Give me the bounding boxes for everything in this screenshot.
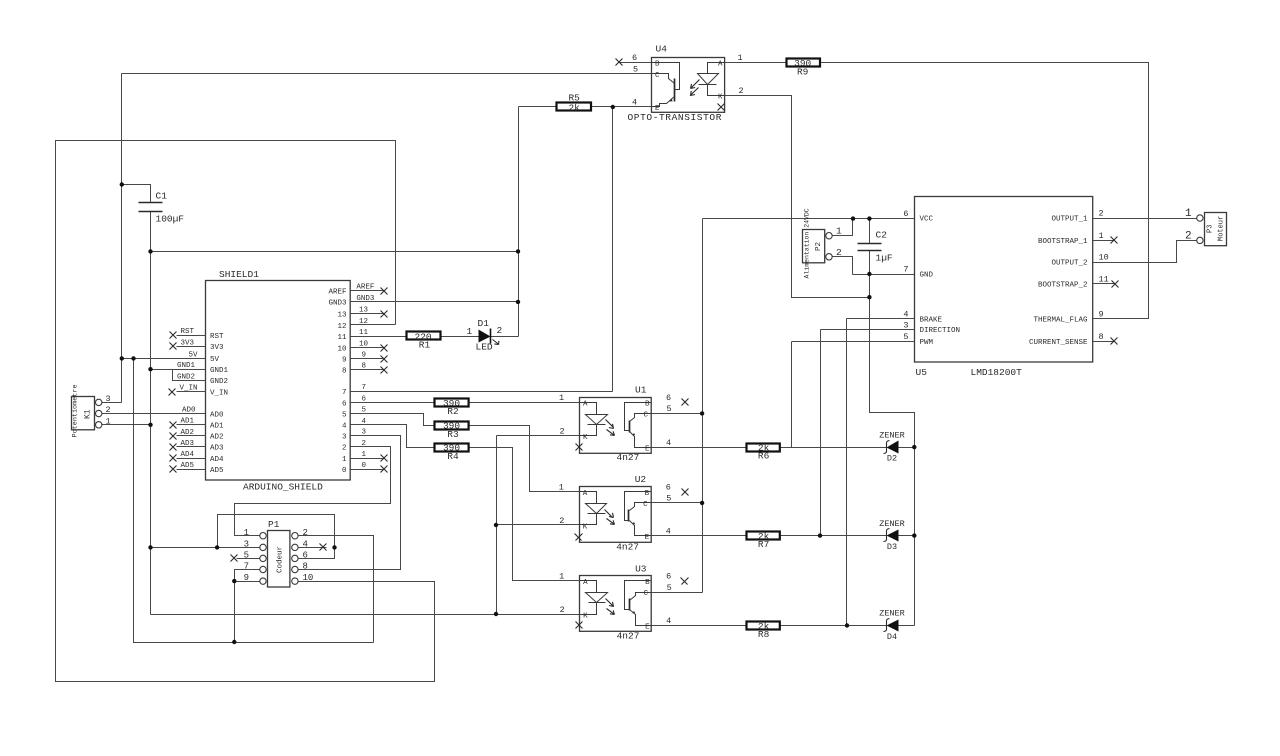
wire shield pin4 to R4 [351, 425, 435, 448]
node U2 pin2 junction [494, 523, 498, 527]
shield left pin 3V3 [177, 346, 206, 348]
svg-text:U2: U2 [635, 474, 647, 485]
capacitor C1 [139, 191, 185, 225]
shield SHIELD1 box [206, 281, 351, 481]
svg-text:7: 7 [903, 265, 908, 275]
resistor R9 390 [787, 58, 821, 78]
svg-text:3: 3 [903, 320, 908, 330]
shield right pin 8 [351, 369, 385, 371]
wire U5 PWM [792, 341, 915, 343]
wire P2 pin2 lead [833, 257, 853, 275]
wire PWM down to R6 row [791, 342, 793, 448]
wire opto cathode vertical [496, 436, 498, 615]
svg-text:B: B [645, 490, 650, 498]
wire D1 cathode to GND column [491, 336, 519, 338]
svg-text:AD3: AD3 [181, 440, 195, 448]
wire GND vertical at x518 [518, 107, 520, 337]
svg-text:AREF: AREF [356, 284, 374, 292]
svg-text:SHIELD1: SHIELD1 [219, 269, 259, 280]
svg-text:AD1: AD1 [210, 423, 224, 431]
svg-text:U3: U3 [635, 563, 647, 574]
svg-text:4: 4 [632, 98, 637, 108]
svg-text:8: 8 [362, 363, 367, 371]
svg-text:ARDUINO_SHIELD: ARDUINO_SHIELD [243, 482, 323, 493]
svg-text:R6: R6 [758, 451, 770, 462]
shield right pin 10 [351, 347, 385, 349]
wire shield pin5 to R3 [351, 414, 435, 426]
svg-text:13: 13 [359, 307, 369, 315]
svg-text:2: 2 [560, 605, 565, 615]
svg-text:1: 1 [362, 451, 367, 459]
svg-text:5: 5 [342, 411, 347, 419]
node U3 pin2 junction [494, 612, 498, 616]
svg-text:R7: R7 [758, 539, 769, 550]
svg-text:C: C [643, 501, 648, 509]
resistor R3 390 [435, 421, 469, 440]
diode D4 zener [879, 609, 905, 642]
svg-text:ZENER: ZENER [879, 430, 905, 440]
svg-text:4n27: 4n27 [616, 542, 639, 553]
svg-text:K1: K1 [84, 409, 93, 419]
wire 5V top horizontal to U4 pin C [122, 73, 652, 75]
resistor R4 390 [435, 443, 469, 462]
svg-text:1: 1 [836, 226, 842, 237]
wire R6 to D2 [781, 447, 887, 449]
svg-text:7: 7 [342, 389, 347, 397]
svg-text:1: 1 [559, 482, 564, 492]
node P1 pin9 junction [232, 579, 236, 583]
wire R8 to D4 [781, 625, 887, 627]
svg-text:ZENER: ZENER [879, 519, 905, 529]
svg-text:U4: U4 [656, 44, 668, 55]
svg-text:THERMAL_FLAG: THERMAL_FLAG [1033, 317, 1088, 325]
svg-text:6: 6 [666, 393, 671, 403]
node D2 column junction [912, 445, 916, 449]
wire GND to zener column [870, 275, 915, 626]
svg-text:K: K [583, 612, 588, 620]
shield left pin AD5 [177, 469, 206, 471]
svg-text:K: K [583, 523, 588, 531]
wire U5 OUTPUT_1 to P3 pin1 [1093, 218, 1197, 220]
svg-text:BOOTSTRAP_1: BOOTSTRAP_1 [1038, 238, 1088, 246]
shield right pin AREF [351, 290, 385, 292]
svg-text:D4: D4 [887, 632, 897, 642]
shield right pin 9 [351, 358, 385, 360]
svg-text:R1: R1 [419, 340, 431, 351]
node D3 column junction [912, 533, 916, 537]
svg-text:3: 3 [342, 433, 347, 441]
svg-text:2: 2 [739, 86, 744, 96]
diode D3 zener [879, 519, 905, 552]
wire GND row to U5 pin7 [853, 274, 915, 276]
svg-text:D3: D3 [887, 542, 897, 552]
svg-text:10: 10 [303, 573, 314, 583]
svg-text:2: 2 [836, 247, 842, 258]
svg-text:R9: R9 [797, 66, 809, 77]
wire R9 to thermal flag [820, 63, 1149, 319]
svg-text:10: 10 [1099, 253, 1109, 263]
svg-text:9: 9 [244, 573, 249, 583]
svg-text:4n27: 4n27 [617, 452, 640, 463]
svg-text:13: 13 [337, 311, 347, 319]
svg-text:4: 4 [666, 526, 671, 536]
wire GND left vertical [150, 252, 152, 615]
resistor R2 390 [435, 398, 469, 417]
svg-text:11: 11 [359, 329, 369, 337]
svg-text:11: 11 [1099, 275, 1109, 285]
wire R3 to U2 pin1 [469, 426, 580, 492]
svg-text:1: 1 [244, 528, 249, 538]
svg-text:6: 6 [342, 400, 347, 408]
node U4 cathode junction [867, 295, 871, 299]
diode D1 LED [467, 318, 503, 353]
wire U5 BRAKE [847, 318, 915, 320]
svg-text:E: E [645, 445, 650, 453]
connector K1 Potentiometre [72, 384, 111, 437]
svg-text:1: 1 [106, 416, 111, 426]
wire U5 BOOTSTRAP_1 stub [1093, 240, 1115, 242]
wire D3 to zener column [899, 535, 915, 537]
svg-text:5: 5 [667, 404, 672, 414]
wire shield pin11 row to R1 [351, 336, 407, 338]
connector P2 Alimentation 24VDC [803, 208, 843, 278]
node DIRECTION R7 junction [818, 533, 822, 537]
shield left pin RST [177, 335, 206, 337]
svg-text:5: 5 [903, 332, 908, 342]
node U1 pin5 junction [700, 411, 704, 415]
node GND1 junction [148, 367, 152, 371]
svg-text:R8: R8 [758, 629, 770, 640]
svg-text:6: 6 [903, 209, 908, 219]
svg-text:R3: R3 [447, 429, 459, 440]
svg-text:E: E [645, 624, 650, 632]
wire U2 pin4 to R7 [652, 535, 747, 537]
wire VCC row to U5 [703, 218, 915, 220]
svg-text:OUTPUT_2: OUTPUT_2 [1051, 260, 1087, 268]
connector P1 Codeur [231, 519, 327, 587]
wire U1 pin5 stub [652, 413, 703, 415]
svg-text:3V3: 3V3 [210, 344, 224, 352]
svg-text:P3: P3 [1207, 225, 1215, 233]
wire K1 pin2 to AD0 [102, 413, 206, 415]
svg-text:LMD18200T: LMD18200T [971, 367, 1023, 378]
svg-text:4: 4 [362, 418, 367, 426]
svg-text:LED: LED [476, 342, 493, 353]
svg-text:9: 9 [1099, 310, 1104, 320]
svg-text:GND1: GND1 [177, 362, 196, 370]
wire R2 to U1 pin1 [469, 402, 580, 404]
svg-text:Moteur: Moteur [1218, 216, 1226, 241]
svg-text:2: 2 [559, 516, 564, 526]
svg-text:BRAKE: BRAKE [920, 317, 943, 325]
svg-text:C: C [644, 590, 649, 598]
wire U4 pin B stub [619, 62, 652, 64]
wire P2 pin1 lead [833, 219, 853, 236]
svg-text:E: E [645, 534, 650, 542]
shield left pin AD3 [177, 446, 206, 448]
wire D4 to zener column [899, 625, 915, 627]
motor driver U5 LMD18200T [903, 197, 1118, 379]
resistor R1 220 [407, 331, 441, 350]
wire GND over-P1 branch to pin6 [218, 515, 335, 559]
shield left pin V_IN [177, 391, 206, 393]
svg-text:GND2: GND2 [177, 373, 195, 381]
wire GND C1 to D1 column [151, 251, 519, 253]
svg-text:AD0: AD0 [210, 411, 224, 419]
svg-text:1: 1 [559, 393, 564, 403]
svg-text:OPTO-TRANSISTOR: OPTO-TRANSISTOR [628, 112, 723, 123]
wire U1 pin4 to R6 [652, 447, 747, 449]
svg-text:AD2: AD2 [181, 429, 195, 437]
wire opto collector vertical [702, 219, 704, 593]
svg-text:8: 8 [1099, 332, 1104, 342]
svg-text:1: 1 [738, 53, 743, 63]
wire shield pin7 vertical [612, 107, 614, 392]
svg-text:B: B [645, 579, 650, 587]
wire C2 bottom lead [869, 251, 871, 275]
node P1 pin3 junction a [148, 545, 152, 549]
shield right pin 13 [351, 313, 385, 315]
wire U4 pin K to GND [725, 96, 870, 298]
wire GND bottom row to U3 pin K [151, 614, 580, 616]
opto-isolator U2 4n27 [559, 474, 689, 552]
svg-text:7: 7 [244, 562, 249, 572]
svg-text:V_IN: V_IN [180, 384, 198, 392]
svg-text:D2: D2 [887, 454, 897, 464]
node P1 pin5 no-connect stub [237, 558, 260, 560]
svg-text:VCC: VCC [920, 216, 934, 224]
wire pin12 big loop to P1 pin10 [56, 141, 435, 682]
node K1 pin1 junction [148, 423, 152, 427]
svg-text:R5: R5 [568, 93, 580, 104]
node P2 pin1 junction [851, 216, 855, 220]
svg-text:2: 2 [362, 440, 367, 448]
svg-text:V_IN: V_IN [210, 389, 228, 397]
svg-text:12: 12 [359, 318, 368, 326]
svg-text:Potentiometre: Potentiometre [72, 384, 80, 437]
wire P1 pin2 branch [298, 536, 374, 643]
svg-text:4: 4 [342, 423, 347, 431]
svg-text:8: 8 [342, 368, 347, 376]
node 5V pin junction b [131, 356, 135, 360]
svg-text:ZENER: ZENER [879, 609, 905, 619]
svg-text:A: A [583, 490, 588, 498]
svg-text:4n27: 4n27 [617, 631, 640, 642]
svg-text:DIRECTION: DIRECTION [920, 327, 961, 335]
svg-text:OUTPUT_1: OUTPUT_1 [1051, 216, 1088, 224]
svg-text:RST: RST [210, 333, 224, 341]
resistor R5 2k [557, 93, 592, 114]
wire P1 pin3 row [151, 547, 260, 549]
diode D2 zener [879, 430, 905, 463]
svg-text:PWM: PWM [920, 339, 934, 347]
wire GND3 row [351, 301, 519, 303]
svg-text:9: 9 [342, 356, 347, 364]
svg-text:3: 3 [362, 429, 367, 437]
svg-text:K: K [583, 434, 588, 442]
svg-text:0: 0 [342, 467, 347, 475]
svg-text:A: A [583, 579, 588, 587]
wire U5 DIRECTION [821, 329, 915, 331]
shield left pin AD1 [177, 424, 206, 426]
svg-text:1: 1 [467, 326, 473, 337]
svg-text:U1: U1 [635, 385, 647, 396]
wire shield pin3 to P1 pin8 [298, 436, 401, 570]
node C1 bottom junction [148, 249, 152, 253]
svg-text:C: C [655, 72, 660, 80]
wire R7 to D3 [781, 535, 887, 537]
svg-text:CURRENT_SENSE: CURRENT_SENSE [1029, 339, 1088, 347]
wire P1 pin7 pin9 branch [235, 570, 260, 643]
svg-text:5: 5 [667, 583, 672, 593]
svg-text:Alimentation 24VDC: Alimentation 24VDC [804, 208, 811, 278]
svg-text:AD1: AD1 [181, 418, 195, 426]
svg-text:3: 3 [106, 394, 111, 404]
wire U2 pin5 stub [652, 502, 703, 504]
svg-text:3V3: 3V3 [181, 339, 195, 347]
svg-text:U5: U5 [916, 367, 928, 378]
svg-text:1: 1 [1099, 231, 1104, 241]
svg-text:11: 11 [337, 334, 347, 342]
svg-text:4: 4 [666, 438, 671, 448]
svg-text:1µF: 1µF [876, 253, 893, 264]
svg-text:2: 2 [1099, 209, 1104, 219]
svg-text:AREF: AREF [328, 289, 346, 297]
svg-text:5: 5 [666, 494, 671, 504]
wire C1 top lead [122, 185, 151, 203]
svg-text:2k: 2k [568, 102, 580, 113]
svg-text:5V: 5V [189, 351, 199, 359]
svg-text:P1: P1 [268, 519, 280, 530]
svg-text:4: 4 [666, 616, 671, 626]
wire GND2 jog [173, 370, 206, 381]
svg-text:2: 2 [560, 427, 565, 437]
connector P3 Moteur [1185, 208, 1227, 246]
wire K1 pin1 stub to GND [102, 424, 151, 426]
shield left pin AD4 [177, 458, 206, 460]
wire R5 left lead [519, 106, 557, 108]
wire shield pin6 to R2 [351, 402, 435, 404]
svg-text:GND3: GND3 [356, 295, 375, 303]
node C2 top junction [867, 216, 871, 220]
svg-text:1: 1 [342, 456, 347, 464]
svg-text:B: B [645, 401, 650, 409]
wire shield pin7 row [351, 391, 613, 393]
svg-text:10: 10 [337, 345, 347, 353]
svg-text:AD2: AD2 [210, 434, 224, 442]
resistor R7 2k [747, 531, 780, 550]
node GND row end junction [516, 249, 520, 253]
wire 5V down branch [134, 359, 374, 643]
svg-text:6: 6 [666, 482, 671, 492]
svg-text:A: A [718, 61, 723, 69]
shield right pin 1 [351, 458, 385, 460]
svg-text:8: 8 [303, 562, 308, 572]
wire R4 to U3 pin1 [469, 448, 580, 581]
resistor R8 2k [747, 621, 780, 640]
wire U1 pin2 stub [497, 435, 580, 437]
wire BRAKE down to R8 row [846, 319, 848, 626]
svg-text:R2: R2 [447, 406, 459, 417]
svg-text:A: A [583, 401, 588, 409]
svg-text:AD3: AD3 [210, 445, 224, 453]
svg-text:AD0: AD0 [182, 406, 196, 414]
wire DIRECTION down to R7 row [820, 330, 822, 536]
capacitor C2 [858, 230, 893, 264]
node 5V bottom junction [232, 640, 236, 644]
svg-text:Codeur: Codeur [277, 546, 285, 573]
wire C1 bottom lead [150, 212, 152, 252]
svg-text:12: 12 [337, 323, 346, 331]
svg-text:5: 5 [362, 407, 367, 415]
svg-text:R4: R4 [447, 451, 459, 462]
wire U2 pin2 stub [497, 524, 580, 526]
svg-text:1: 1 [1185, 208, 1192, 220]
svg-text:GND: GND [920, 272, 934, 280]
svg-text:C: C [643, 412, 648, 420]
svg-text:2: 2 [342, 445, 347, 453]
node 5V pin junction a [120, 356, 124, 360]
resistor R6 2k [747, 443, 780, 462]
svg-text:AD5: AD5 [181, 462, 195, 470]
svg-text:6: 6 [303, 551, 308, 561]
svg-text:GND2: GND2 [210, 378, 228, 386]
svg-text:10: 10 [359, 340, 369, 348]
svg-text:RST: RST [181, 328, 195, 336]
wire C2 top lead [869, 219, 871, 244]
shield left pin AD2 [177, 435, 206, 437]
svg-text:AD4: AD4 [181, 451, 195, 459]
svg-text:1: 1 [559, 572, 564, 582]
svg-text:C2: C2 [876, 230, 888, 241]
svg-text:P2: P2 [815, 242, 823, 251]
shield right pin 0 [351, 469, 385, 471]
wire P1 pin9 stub [235, 581, 260, 583]
opto-isolator U3 4n27 [559, 563, 688, 641]
svg-text:6: 6 [362, 395, 367, 403]
svg-text:BOOTSTRAP_2: BOOTSTRAP_2 [1038, 282, 1088, 290]
wire 5V left vertical [121, 74, 123, 403]
opto-transistor U4 [616, 44, 744, 124]
svg-text:4: 4 [903, 310, 908, 320]
svg-text:GND1: GND1 [210, 367, 229, 375]
svg-text:0: 0 [362, 462, 367, 470]
svg-text:4: 4 [303, 540, 308, 550]
svg-text:9: 9 [362, 352, 367, 360]
wire GND1 row [151, 369, 206, 371]
svg-text:K: K [718, 94, 723, 102]
svg-text:5V: 5V [210, 356, 220, 364]
svg-text:2: 2 [106, 405, 111, 415]
opto-isolator U1 4n27 [559, 385, 689, 463]
node C1 top junction [120, 182, 124, 186]
svg-text:6: 6 [666, 572, 671, 582]
wire R5 right lead to U4 pin E [592, 106, 652, 108]
svg-text:6: 6 [632, 53, 637, 63]
svg-text:7: 7 [362, 384, 367, 392]
wire U3 pin4 to R8 [652, 625, 747, 627]
svg-text:D1: D1 [478, 318, 490, 329]
svg-text:2: 2 [497, 325, 503, 336]
wire U5 OUTPUT_2 to P3 pin2 [1093, 241, 1197, 263]
node P1 pin3 junction b [215, 545, 219, 549]
node C2 bottom junction [867, 272, 871, 276]
wire U4 pin A to R9 [725, 62, 787, 64]
svg-text:GND3: GND3 [328, 300, 347, 308]
svg-text:B: B [655, 61, 660, 69]
svg-text:2: 2 [303, 528, 308, 538]
node R5 right junction [611, 105, 615, 109]
